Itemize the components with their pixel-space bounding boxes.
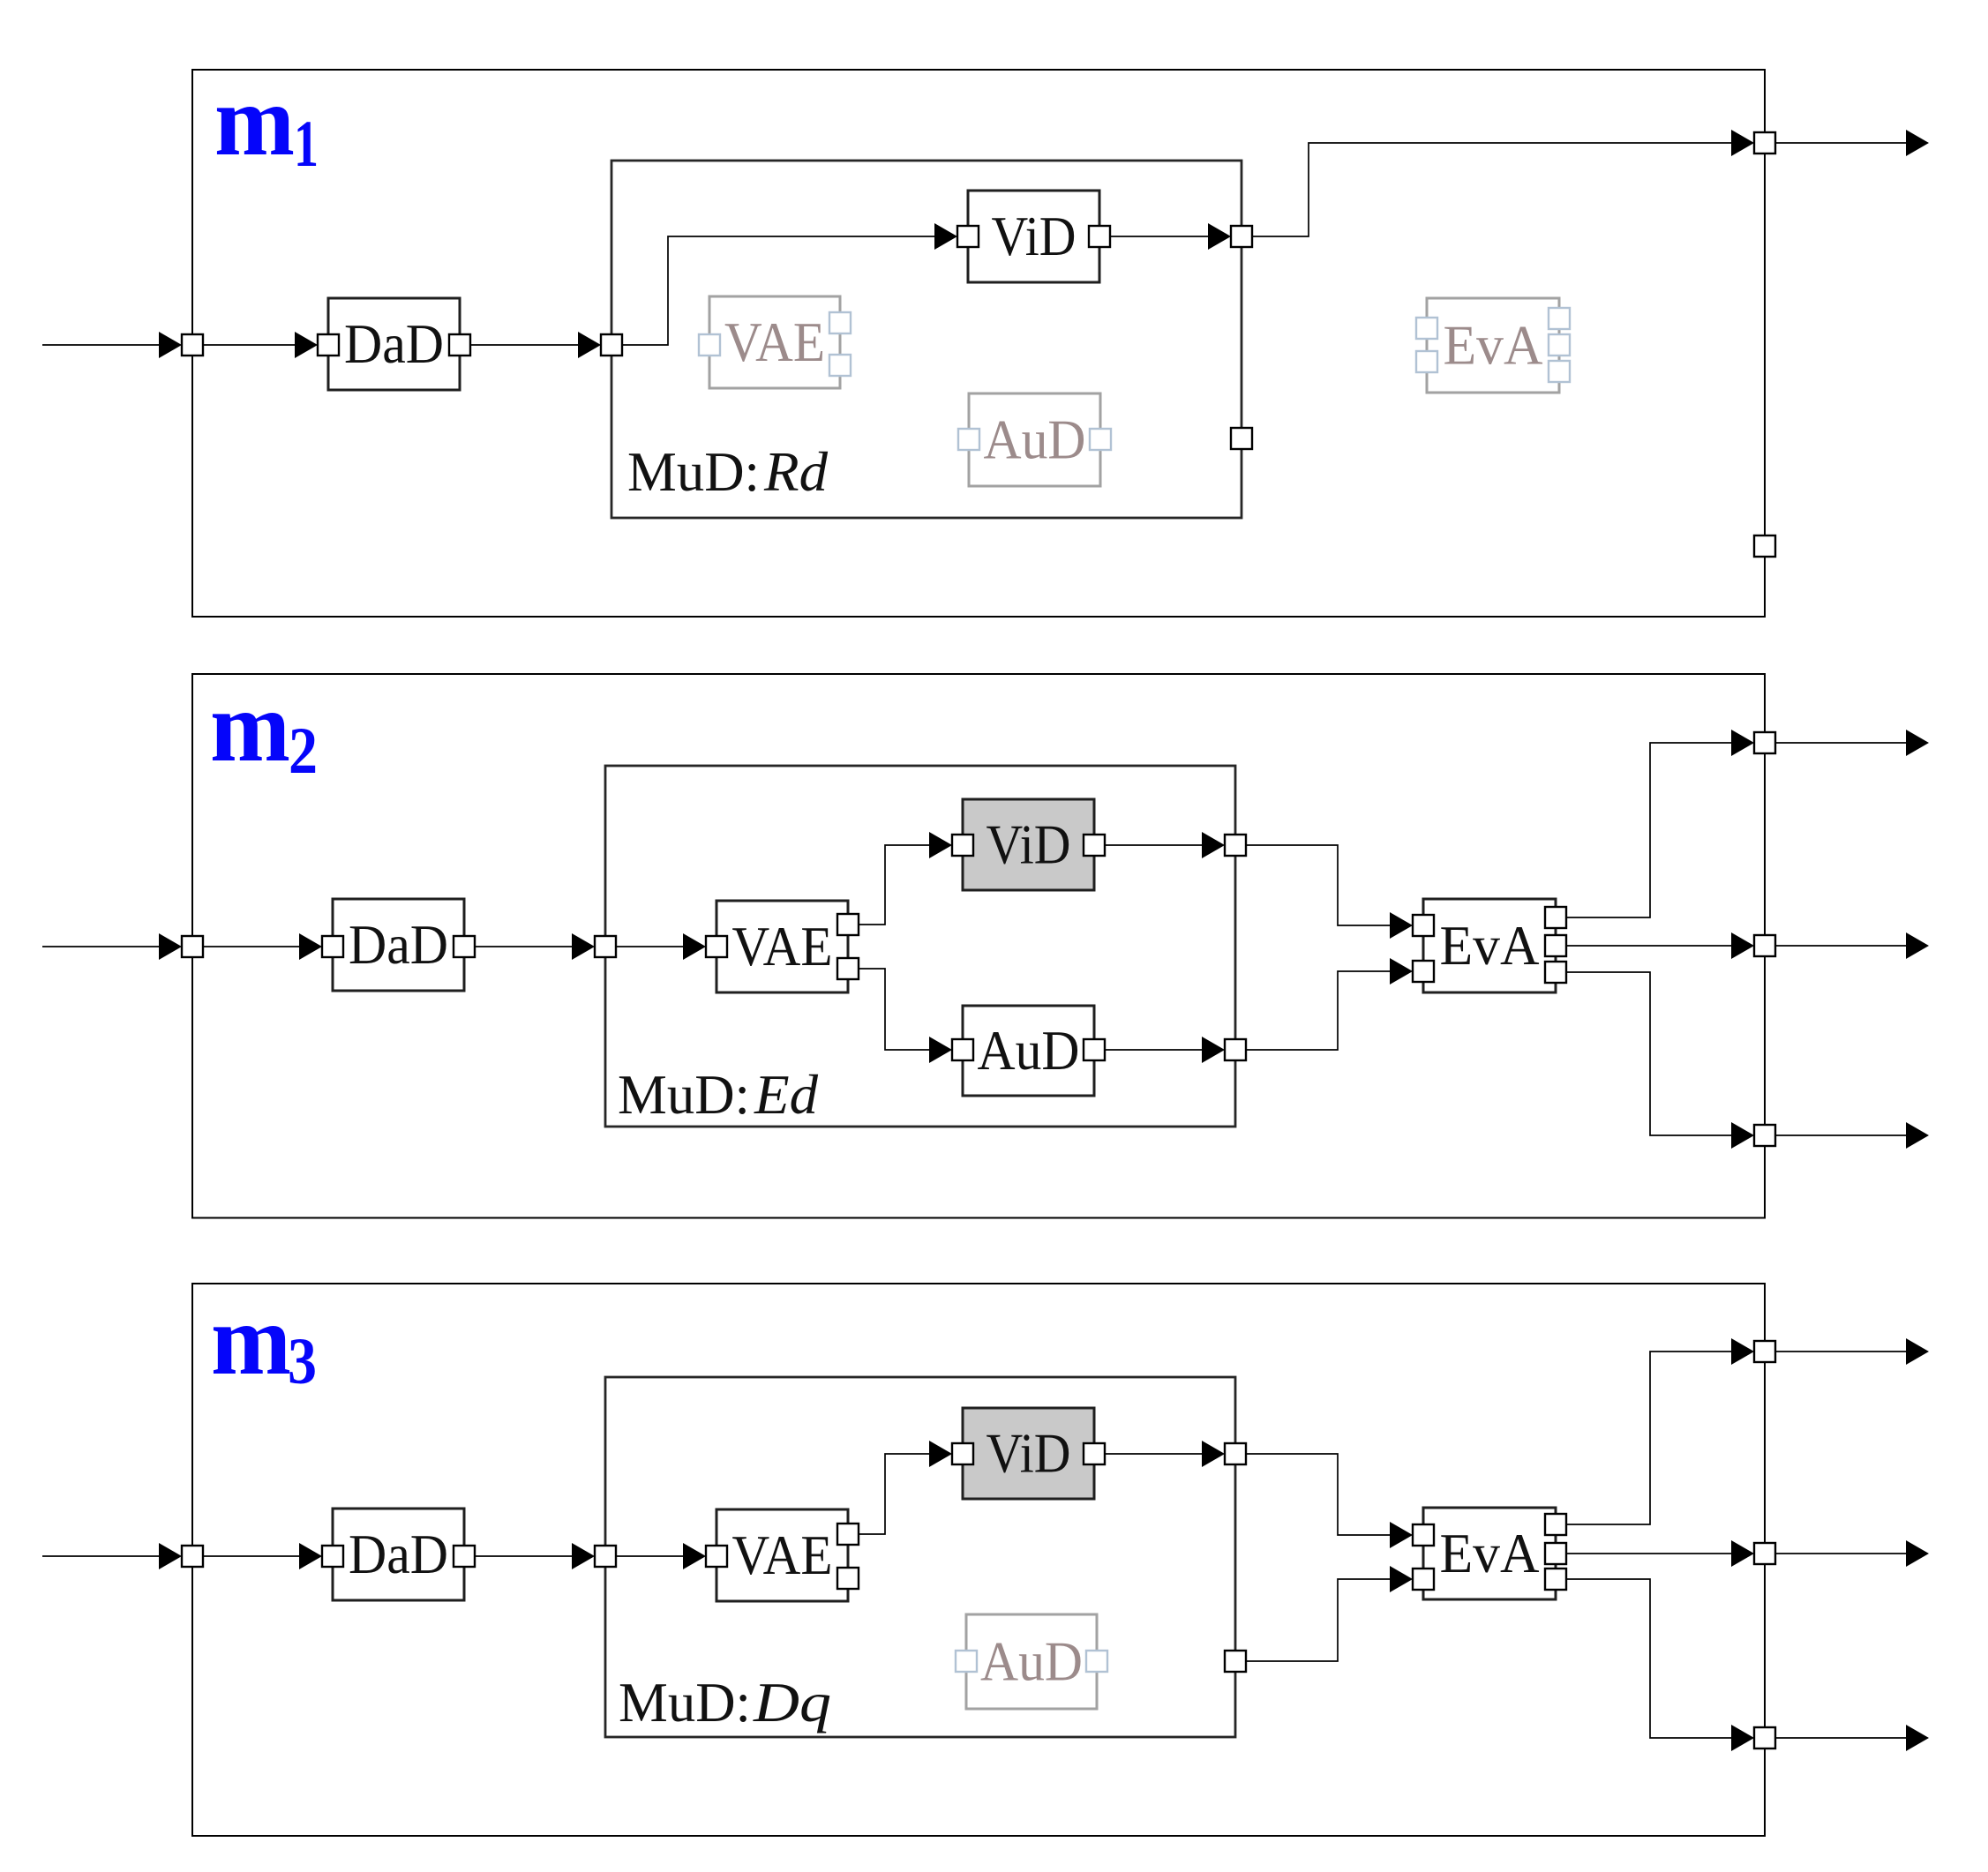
svg-text:ViD: ViD	[986, 1422, 1071, 1485]
arrowhead m2 output2	[1906, 932, 1929, 959]
port EvA.out1 (m2)	[1545, 907, 1566, 928]
port EvA.out3 (m1)	[1549, 361, 1570, 382]
arrowhead into MuD (m3)	[572, 1543, 595, 1569]
port AuD.out (m3)	[1086, 1651, 1107, 1672]
component block ViD (m2)	[963, 799, 1094, 890]
arrowhead into panel out3 (m2)	[1731, 1122, 1754, 1149]
arrowhead into EvA.in2 (m2)	[1390, 958, 1413, 985]
component block VAE (m3)	[716, 1509, 848, 1601]
port m2 panel output2	[1754, 935, 1775, 956]
wire VAE to AuD (m2)	[859, 969, 929, 1050]
wire EvA.out2 to panel (m3)	[1566, 1553, 1731, 1554]
container MuD m1 (MuD: Rd)	[611, 161, 1242, 518]
port MuD.out1 (m1)	[1231, 226, 1252, 247]
port EvA.in2 (m1)	[1416, 351, 1437, 372]
port ViD.out (m3)	[1084, 1443, 1105, 1464]
port EvA.out2 (m3)	[1545, 1543, 1566, 1564]
arrowhead into DaD (m1)	[295, 332, 318, 358]
wire m1 output	[1775, 142, 1906, 144]
port DaD.out (m3)	[454, 1546, 475, 1567]
arrowhead into MuD.out (m1)	[1208, 223, 1231, 250]
port MuD.out1 (m2)	[1225, 835, 1246, 856]
wire MuD to panel out (m1)	[1252, 143, 1731, 236]
svg-text:AuD: AuD	[980, 1630, 1083, 1693]
arrowhead into VAE (m3)	[683, 1543, 706, 1569]
arrowhead into AuD (m2)	[929, 1037, 952, 1063]
port ViD.in (m2)	[952, 835, 973, 856]
panel m3 boundary	[192, 1284, 1765, 1836]
component block VAE (m1, inactive)	[709, 296, 840, 388]
port MuD.in (m2)	[595, 936, 616, 957]
port m1 panel input	[182, 334, 203, 356]
port EvA.out3 (m2)	[1545, 962, 1566, 983]
arrowhead into MuD (m2)	[572, 933, 595, 960]
port EvA.in2 (m3)	[1413, 1569, 1434, 1590]
port AuD.out (m1)	[1090, 429, 1111, 450]
arrowhead into panel out2 (m2)	[1731, 932, 1754, 959]
container MuD m3 (MuD: Dq)	[605, 1377, 1235, 1737]
wire MuD.in to ViD (m1)	[622, 236, 934, 345]
arrowhead m2 input	[159, 933, 182, 960]
arrowhead into panel out (m1)	[1731, 130, 1754, 156]
wire m3 input to DaD	[203, 1555, 299, 1557]
arrowhead m1 output	[1906, 130, 1929, 156]
component block EvA (m3)	[1423, 1508, 1556, 1599]
svg-text:Rd: Rd	[763, 440, 829, 503]
port VAE.out2 dangling (m3)	[837, 1568, 859, 1589]
wire EvA.out1 to panel (m3)	[1566, 1352, 1731, 1524]
svg-text:VAE: VAE	[732, 1524, 833, 1586]
svg-text:AuD: AuD	[984, 408, 1086, 471]
port ViD.in (m3)	[952, 1443, 973, 1464]
svg-text:Ed: Ed	[754, 1063, 819, 1126]
port DaD.out (m2)	[454, 936, 475, 957]
container MuD m2 (MuD: Ed)	[605, 766, 1235, 1127]
port DaD.in (m3)	[322, 1546, 343, 1567]
svg-text:EvA: EvA	[1440, 1522, 1540, 1584]
port ViD.out (m2)	[1084, 835, 1105, 856]
wire MuD.in to VAE (m2)	[616, 946, 683, 947]
arrowhead into VAE (m2)	[683, 933, 706, 960]
component block AuD (m3, inactive)	[966, 1614, 1097, 1709]
port MuD.out2 dangling (m1)	[1231, 428, 1252, 449]
wire m2 input	[42, 946, 159, 947]
port EvA.out1 (m3)	[1545, 1514, 1566, 1535]
port AuD.in (m3)	[956, 1651, 977, 1672]
component block DaD (m1)	[328, 298, 460, 390]
svg-text:3: 3	[288, 1325, 317, 1398]
port DaD.in (m1)	[318, 334, 339, 356]
arrowhead into MuD (m1)	[578, 332, 601, 358]
port m1 panel output	[1754, 132, 1775, 154]
port MuD.out2 (m3)	[1225, 1651, 1246, 1672]
arrowhead into MuD.out2 (m2)	[1202, 1037, 1225, 1063]
arrowhead m2 output3	[1906, 1122, 1929, 1149]
port EvA.out2 (m2)	[1545, 935, 1566, 956]
svg-text:VAE: VAE	[724, 311, 825, 373]
svg-text:Dq: Dq	[753, 1671, 831, 1733]
svg-text:DaD: DaD	[349, 1523, 448, 1585]
panel m1 boundary	[192, 70, 1765, 617]
svg-text:MuD:: MuD:	[627, 440, 760, 503]
wire m2 output3	[1775, 1134, 1906, 1136]
wire VAE to ViD (m3)	[859, 1454, 929, 1534]
arrowhead m3 input	[159, 1543, 182, 1569]
component block VAE (m2)	[716, 901, 848, 992]
svg-text:AuD: AuD	[978, 1019, 1080, 1082]
arrowhead into ViD (m1)	[934, 223, 957, 250]
wire EvA.out2 to panel (m2)	[1566, 945, 1731, 947]
port MuD.in (m3)	[595, 1546, 616, 1567]
wire EvA.out1 to panel (m2)	[1566, 743, 1731, 917]
port EvA.out3 (m3)	[1545, 1569, 1566, 1590]
svg-text:2: 2	[289, 715, 318, 788]
label node m1	[214, 64, 319, 181]
wire m3 output3	[1775, 1737, 1906, 1739]
wire MuD.out2 to EvA (m2)	[1246, 971, 1390, 1050]
wire MuD.in to VAE (m3)	[616, 1555, 683, 1557]
component block AuD (m1, inactive)	[969, 393, 1100, 486]
port EvA.in2 (m2)	[1413, 961, 1434, 982]
wire VAE to ViD (m2)	[859, 845, 929, 925]
component block ViD (m1)	[968, 191, 1099, 282]
svg-text:m: m	[211, 1284, 291, 1396]
label node m3	[211, 1284, 317, 1398]
svg-text:MuD:: MuD:	[618, 1063, 750, 1126]
wire DaD to MuD (m3)	[475, 1555, 572, 1557]
arrowhead into DaD (m2)	[299, 933, 322, 960]
wire EvA.out3 to panel (m2)	[1566, 972, 1731, 1135]
arrowhead m3 output2	[1906, 1540, 1929, 1567]
panel m2 boundary	[192, 674, 1765, 1218]
port EvA.in1 (m1)	[1416, 318, 1437, 339]
arrowhead m1 input	[159, 332, 182, 358]
arrowhead into EvA.in1 (m2)	[1390, 912, 1413, 939]
component block AuD (m2)	[963, 1006, 1094, 1096]
arrowhead into EvA.in1 (m3)	[1390, 1522, 1413, 1548]
port DaD.in (m2)	[322, 936, 343, 957]
wire MuD.out1 to EvA (m3)	[1246, 1454, 1390, 1535]
port m3 panel output2	[1754, 1543, 1775, 1564]
arrowhead into panel out2 (m3)	[1731, 1540, 1754, 1567]
port VAE.out2 (m1)	[829, 355, 851, 376]
svg-text:DaD: DaD	[349, 913, 448, 976]
wire m3 output2	[1775, 1553, 1906, 1554]
component block EvA (m2)	[1423, 899, 1556, 992]
port ViD.out (m1)	[1089, 226, 1110, 247]
wire m2 input to DaD	[203, 946, 299, 947]
port VAE.out1 (m1)	[829, 312, 851, 333]
port EvA.in1 (m3)	[1413, 1524, 1434, 1546]
wire m2 output1	[1775, 742, 1906, 744]
port AuD.in (m1)	[958, 429, 979, 450]
svg-text:ViD: ViD	[992, 205, 1077, 267]
port m3 panel output1	[1754, 1341, 1775, 1362]
wire m1 input to DaD	[203, 344, 295, 346]
port MuD.out2 (m2)	[1225, 1039, 1246, 1060]
port m2 panel output1	[1754, 732, 1775, 753]
port m1 panel output dangling	[1754, 535, 1775, 557]
svg-text:VAE: VAE	[732, 915, 833, 977]
arrowhead m2 output1	[1906, 730, 1929, 756]
arrowhead into ViD (m2)	[929, 832, 952, 858]
wire DaD to MuD (m1)	[470, 344, 578, 346]
svg-text:DaD: DaD	[344, 312, 444, 375]
port VAE.out2 (m2)	[837, 958, 859, 979]
port MuD.out1 (m3)	[1225, 1443, 1246, 1464]
svg-text:EvA: EvA	[1440, 914, 1540, 977]
wire m2 output2	[1775, 945, 1906, 947]
port VAE.in (m3)	[706, 1546, 727, 1567]
wire DaD to MuD (m2)	[475, 946, 572, 947]
wire m3 output1	[1775, 1351, 1906, 1352]
port VAE.in (m2)	[706, 936, 727, 957]
label node m2	[210, 670, 318, 788]
port VAE.out1 (m2)	[837, 914, 859, 935]
port m3 panel output3	[1754, 1727, 1775, 1748]
port VAE.out1 (m3)	[837, 1524, 859, 1545]
port m2 panel input	[182, 936, 203, 957]
wire ViD to MuD edge (m3)	[1105, 1453, 1202, 1455]
wire m1 input	[42, 344, 159, 346]
component block EvA (m1, inactive)	[1427, 298, 1559, 393]
port DaD.out (m1)	[449, 334, 470, 356]
port EvA.out1 (m1)	[1549, 308, 1570, 329]
wire MuD.out1 to EvA (m2)	[1246, 845, 1390, 925]
wire ViD to MuD edge (m2)	[1105, 844, 1202, 846]
svg-text:MuD:: MuD:	[619, 1671, 751, 1733]
arrowhead into DaD (m3)	[299, 1543, 322, 1569]
arrowhead m3 output1	[1906, 1338, 1929, 1365]
port EvA.out2 (m1)	[1549, 334, 1570, 356]
svg-text:m: m	[210, 670, 290, 782]
port ViD.in (m1)	[957, 226, 979, 247]
arrowhead m3 output3	[1906, 1725, 1929, 1751]
arrowhead into ViD (m3)	[929, 1441, 952, 1467]
arrowhead into MuD.out1 (m3)	[1202, 1441, 1225, 1467]
wire AuD to MuD edge (m2)	[1105, 1049, 1202, 1051]
wire MuD.out2 to EvA (m3)	[1246, 1579, 1390, 1661]
port AuD.out (m2)	[1084, 1039, 1105, 1060]
port VAE.in (m1)	[699, 334, 720, 356]
port m2 panel output3	[1754, 1125, 1775, 1146]
component block DaD (m2)	[333, 899, 464, 991]
arrowhead into panel out1 (m2)	[1731, 730, 1754, 756]
wire m3 input	[42, 1555, 159, 1557]
port m3 panel input	[182, 1546, 203, 1567]
port AuD.in (m2)	[952, 1039, 973, 1060]
arrowhead into MuD.out1 (m2)	[1202, 832, 1225, 858]
arrowhead into panel out1 (m3)	[1731, 1338, 1754, 1365]
arrowhead into EvA.in2 (m3)	[1390, 1566, 1413, 1592]
svg-text:m: m	[214, 64, 295, 176]
component block DaD (m3)	[333, 1509, 464, 1600]
svg-text:1: 1	[294, 108, 319, 181]
arrowhead into panel out3 (m3)	[1731, 1725, 1754, 1751]
svg-text:ViD: ViD	[986, 813, 1071, 876]
wire ViD to MuD edge (m1)	[1110, 236, 1208, 237]
component block ViD (m3)	[963, 1408, 1094, 1499]
port MuD.in (m1)	[601, 334, 622, 356]
svg-text:EvA: EvA	[1444, 314, 1543, 377]
port EvA.in1 (m2)	[1413, 915, 1434, 936]
wire EvA.out3 to panel (m3)	[1566, 1579, 1731, 1738]
